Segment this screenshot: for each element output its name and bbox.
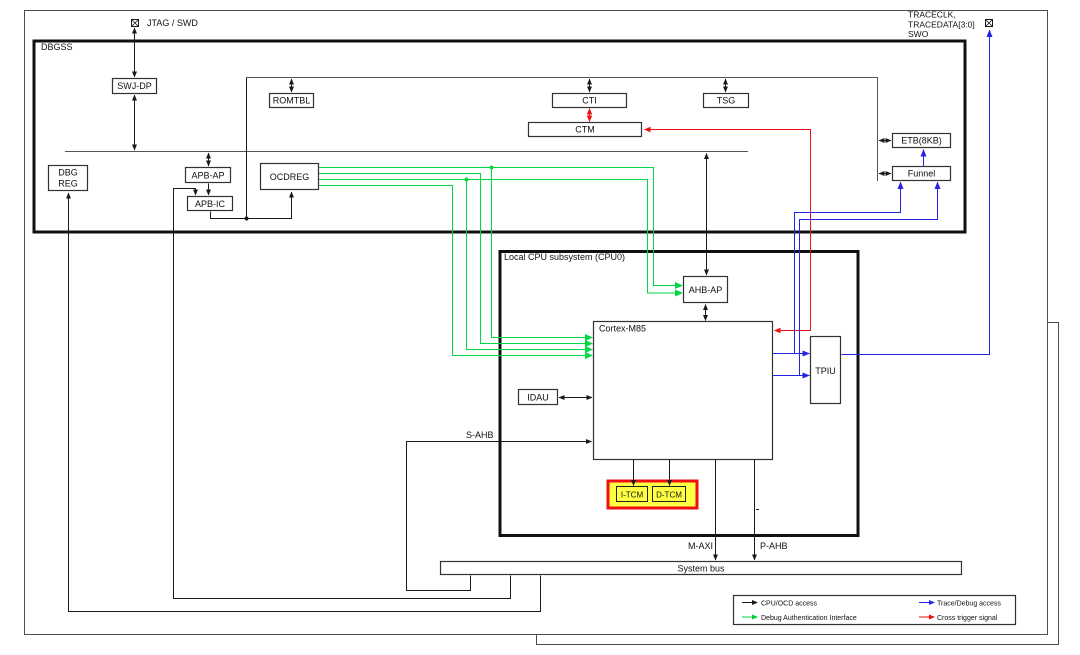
APB-AP xyxy=(186,168,231,183)
CTI xyxy=(553,94,627,108)
JTAG/SWD pin xyxy=(132,20,139,27)
svg-text:AHB-AP: AHB-AP xyxy=(689,285,723,295)
wire: P-AHB to system bus xyxy=(754,460,756,560)
svg-text:SWO: SWO xyxy=(908,29,929,39)
svg-text:IDAU: IDAU xyxy=(527,393,549,403)
APB-IC xyxy=(188,197,233,211)
blue wire: Cortex trace out 1 to TPIU xyxy=(773,353,810,355)
red wire: CTM to Cortex-M85 (cross trigger) xyxy=(645,130,811,331)
green wire B: OCDREG to Cortex pin 2 xyxy=(319,174,592,344)
wire: M-AXI to system bus xyxy=(715,460,717,560)
svg-text:I-TCM: I-TCM xyxy=(621,491,644,500)
svg-text:TSG: TSG xyxy=(717,96,736,106)
TPIU xyxy=(811,337,841,404)
svg-text:Trace/Debug access: Trace/Debug access xyxy=(937,601,1001,608)
SWJ-DP xyxy=(113,79,157,94)
wire: ROMTBL to trace bus xyxy=(291,79,293,92)
legend: Cross trigger signal xyxy=(919,616,929,618)
TCM highlight container xyxy=(608,481,697,508)
DBG REG xyxy=(49,166,88,191)
svg-text:CPU/OCD access: CPU/OCD access xyxy=(761,601,818,608)
wire: APB-AP to APB-IC xyxy=(208,184,210,196)
ETB(8KB) xyxy=(893,134,951,148)
ROMTBL xyxy=(270,94,314,108)
svg-text:P-AHB: P-AHB xyxy=(760,541,788,551)
OCDREG xyxy=(261,164,319,190)
svg-text:APB-IC: APB-IC xyxy=(195,199,226,209)
Local CPU subsystem box xyxy=(500,252,858,536)
green wire A branch: to Cortex pin 1 xyxy=(492,168,593,338)
wire: TSG to trace bus xyxy=(725,79,727,92)
svg-text:CTM: CTM xyxy=(575,125,595,135)
wire: trace drop to ETB xyxy=(879,140,891,142)
wire: AHB-AP to Cortex-M85 xyxy=(705,305,707,321)
svg-text:CTI: CTI xyxy=(582,96,597,106)
D-TCM xyxy=(653,487,686,502)
wire: APB bus (horizontal) xyxy=(65,151,748,153)
AHB-AP xyxy=(684,277,728,303)
Cortex-M85 xyxy=(594,322,773,460)
svg-text:System bus: System bus xyxy=(677,564,725,574)
svg-text:ROMTBL: ROMTBL xyxy=(273,96,311,106)
svg-text:Funnel: Funnel xyxy=(908,169,936,179)
stray dash xyxy=(756,509,759,511)
svg-text:REG: REG xyxy=(58,179,78,189)
wire: trace bus top horizontal + right drop xyxy=(247,78,878,182)
svg-text:D-TCM: D-TCM xyxy=(656,491,682,500)
svg-text:Cross trigger signal: Cross trigger signal xyxy=(937,615,998,622)
green wire C: OCDREG to AHB-AP (lower) with branch to Cortex xyxy=(319,180,682,294)
svg-text:SWJ-DP: SWJ-DP xyxy=(117,81,152,91)
blue wire: Cortex trace out 2 to TPIU xyxy=(773,375,810,377)
wire: system bus to DBG REG (long left path) xyxy=(69,193,541,612)
wire: APB-IC bottom to OCDREG bottom xyxy=(211,192,292,219)
blue wire: branch up to Funnel in 2 xyxy=(800,182,938,376)
junction dot xyxy=(245,217,249,221)
CTM xyxy=(529,123,642,137)
wire: S-AHB from system bus to Cortex-M85 xyxy=(407,442,592,591)
wire: Cortex to D-TCM xyxy=(669,460,671,486)
I-TCM xyxy=(617,487,648,502)
svg-text:Local CPU subsystem (CPU0): Local CPU subsystem (CPU0) xyxy=(504,252,625,262)
wire: JTAG pin to SWJ-DP xyxy=(134,28,136,77)
green wire C branch: to Cortex pin 3 xyxy=(467,180,593,350)
Funnel xyxy=(893,167,951,181)
svg-text:TRACEDATA[3:0]: TRACEDATA[3:0] xyxy=(908,20,975,30)
page 2 frame (stacked page behind, bottom-right) xyxy=(537,323,1059,645)
trace pin (TRACECLK/TRACEDATA/SWO) xyxy=(986,20,993,27)
legend box xyxy=(734,596,1016,625)
svg-text:OCDREG: OCDREG xyxy=(270,172,310,182)
blue wire: TPIU to trace pin xyxy=(842,30,990,355)
svg-text:DBGSS: DBGSS xyxy=(41,42,73,52)
svg-text:JTAG / SWD: JTAG / SWD xyxy=(147,18,198,28)
legend: Trace/Debug access xyxy=(919,602,929,604)
svg-text:TRACECLK,: TRACECLK, xyxy=(908,10,956,20)
blue wire: branch up to Funnel in 1 xyxy=(795,182,901,354)
green wire D: OCDREG to Cortex pin 4 xyxy=(319,186,592,356)
System bus xyxy=(441,562,962,575)
wire: APB bus to APB-AP xyxy=(208,153,210,166)
svg-text:ETB(8KB): ETB(8KB) xyxy=(901,136,942,146)
wire: APB bus to AHB-AP xyxy=(706,154,708,276)
blue wire: Funnel to ETB xyxy=(923,150,925,167)
svg-text:DBG: DBG xyxy=(58,168,78,178)
svg-text:S-AHB: S-AHB xyxy=(466,430,494,440)
TSG xyxy=(704,94,749,108)
wire: system bus to APB-IC (long left path) xyxy=(174,189,511,599)
wire: SWJ-DP to APB bus xyxy=(134,95,136,150)
DBGSS box xyxy=(34,41,965,232)
wire: IDAU to Cortex-M85 xyxy=(559,397,592,399)
wire: CTI to trace bus xyxy=(589,79,591,92)
svg-text:Cortex-M85: Cortex-M85 xyxy=(599,324,646,334)
wire: trace drop to Funnel xyxy=(879,173,891,175)
red wire: CTI to CTM xyxy=(589,109,591,122)
svg-text:Debug Authentication Interface: Debug Authentication Interface xyxy=(761,615,857,622)
green wire A: OCDREG to AHB-AP (upper) with branch to Cortex xyxy=(319,168,682,286)
svg-text:TPIU: TPIU xyxy=(815,366,836,376)
svg-text:M-AXI: M-AXI xyxy=(688,541,713,551)
IDAU xyxy=(519,390,558,405)
svg-text:APB-AP: APB-AP xyxy=(191,171,224,181)
legend: Debug Authentication Interface xyxy=(742,616,752,618)
legend: CPU/OCD access xyxy=(742,602,752,604)
wire: trace bus drop at x=246 to APB-IC net xyxy=(246,78,248,219)
wire: Cortex to I-TCM xyxy=(633,460,635,486)
